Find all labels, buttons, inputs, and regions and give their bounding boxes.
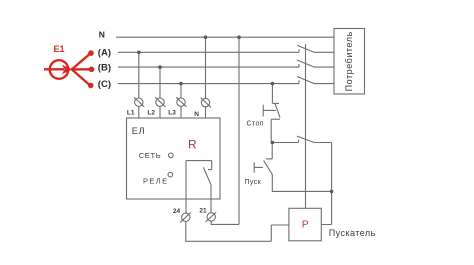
svg-text:L3: L3 bbox=[168, 110, 176, 117]
node stop tap on C bbox=[271, 82, 275, 86]
wire phase A to consumer bbox=[314, 51, 334, 53]
node N to 21 tap bbox=[237, 35, 241, 39]
button Stop (NC) bbox=[272, 102, 279, 104]
starter coil box P bbox=[289, 208, 321, 241]
relay box EL bbox=[127, 118, 221, 199]
wire contact to terminal 24 bbox=[185, 161, 187, 214]
svg-text:R: R bbox=[188, 137, 197, 151]
contact KM1.2 blade on phase B bbox=[297, 60, 314, 67]
node L1 tap bbox=[137, 51, 141, 55]
svg-text:РЕЛЕ: РЕЛЕ bbox=[143, 177, 169, 186]
relay contact fixed stub with tick bbox=[208, 161, 212, 170]
wire N bus bbox=[116, 36, 334, 38]
relay output contact bar bbox=[186, 160, 212, 162]
wire L1 drop from phase A bbox=[138, 52, 140, 118]
consumer box bbox=[334, 29, 365, 95]
svg-text:Пуск: Пуск bbox=[245, 179, 262, 186]
contact KM1.3 blade on phase C bbox=[297, 77, 314, 84]
svg-text:Стоп: Стоп bbox=[247, 121, 264, 128]
terminal L1 bbox=[135, 98, 143, 106]
wire phase C bus bbox=[118, 81, 299, 84]
svg-text:N: N bbox=[99, 30, 105, 40]
wire stop to start junction bbox=[271, 143, 273, 159]
contact KM1.4 aux blade bbox=[297, 136, 314, 142]
node E1 phase B dot bbox=[89, 67, 95, 73]
wire 21 to N bus bbox=[211, 37, 239, 224]
svg-text:(B): (B) bbox=[98, 62, 111, 73]
svg-text:L1: L1 bbox=[127, 110, 135, 117]
node start/aux bottom junction bbox=[330, 190, 334, 194]
wire start bottom bbox=[272, 175, 331, 192]
svg-text:E1: E1 bbox=[54, 44, 65, 54]
relay contact blade bbox=[203, 167, 211, 184]
svg-text:P: P bbox=[302, 219, 309, 231]
button Start (NO) bbox=[266, 158, 272, 160]
svg-text:L2: L2 bbox=[147, 110, 155, 117]
wire aux contact line bbox=[272, 140, 298, 143]
svg-text:ЕЛ: ЕЛ bbox=[132, 126, 146, 136]
terminal 24 bbox=[182, 213, 190, 221]
svg-text:Потребитель: Потребитель bbox=[344, 31, 354, 91]
wire stop branch from phase C bbox=[271, 84, 273, 104]
wire L2 drop from phase B bbox=[159, 67, 161, 118]
linkage contactor to coil bbox=[305, 44, 307, 208]
node E1 phase C dot bbox=[88, 83, 94, 89]
indicator lamp SET bbox=[169, 153, 174, 158]
node E1 phase A dot bbox=[88, 50, 94, 56]
wire phase B to consumer bbox=[314, 66, 334, 68]
svg-text:Пускатель: Пускатель bbox=[329, 228, 376, 238]
generator E1 symbol bbox=[44, 53, 91, 85]
node N terminal tap bbox=[204, 35, 208, 39]
wire aux to coil right bbox=[314, 143, 331, 225]
wire N drop from N bus bbox=[205, 37, 207, 118]
wire contact to terminal 21 bbox=[210, 185, 212, 213]
wire phase A bus bbox=[118, 49, 299, 52]
terminal 21 bbox=[207, 213, 215, 221]
terminal N bbox=[201, 98, 209, 106]
contact KM1.1 blade on phase A bbox=[297, 45, 314, 52]
wire L3 drop from phase C bbox=[180, 84, 182, 118]
wire phase B bus bbox=[118, 64, 299, 67]
terminal L2 bbox=[156, 98, 164, 106]
node stop/start/aux junction bbox=[271, 141, 275, 145]
node L2 tap bbox=[158, 65, 162, 69]
svg-text:21: 21 bbox=[199, 207, 207, 214]
wire 24 to starter coil left bbox=[186, 222, 289, 242]
svg-text:(A): (A) bbox=[98, 47, 111, 58]
indicator lamp RELAY bbox=[168, 172, 173, 177]
terminal L3 bbox=[177, 98, 185, 106]
svg-text:N: N bbox=[194, 111, 199, 118]
svg-text:СЕТЬ: СЕТЬ bbox=[139, 151, 162, 160]
svg-text:24: 24 bbox=[173, 208, 181, 215]
node L3 tap bbox=[179, 82, 183, 86]
svg-text:(C): (C) bbox=[98, 79, 111, 90]
wire phase C to consumer bbox=[314, 83, 334, 85]
